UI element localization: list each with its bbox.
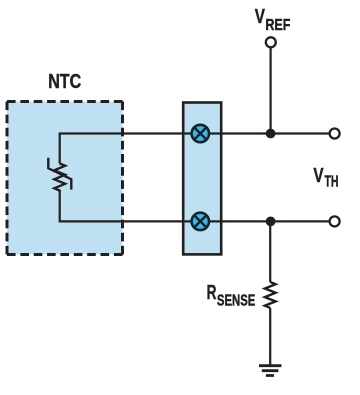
svg-text:SENSE: SENSE [217, 292, 256, 309]
wire bottom: thermistor to VTH bottom terminal [60, 192, 329, 221]
junction node bottom [266, 217, 276, 227]
VREF terminal circle [266, 37, 276, 47]
svg-text:TH: TH [325, 174, 339, 191]
ground [259, 366, 282, 376]
VTH top terminal circle [330, 129, 340, 139]
svg-text:R: R [207, 282, 217, 304]
wire: VREF stem [270, 48, 272, 133]
wire: RSENSE to ground [269, 308, 271, 366]
svg-text:V: V [255, 6, 266, 28]
resistor RSENSE [265, 282, 276, 308]
VTH bottom terminal circle [330, 216, 340, 226]
terminal pin 2 (circled X) [192, 213, 209, 230]
terminal pin 1 (circled X) [192, 125, 209, 142]
wire top: thermistor to VTH top terminal [60, 134, 329, 164]
wire: junction to RSENSE [269, 221, 271, 282]
svg-text:REF: REF [265, 17, 290, 34]
svg-text:NTC: NTC [48, 71, 81, 93]
thermistor RT (NTC) [48, 158, 71, 192]
terminal block J1 [183, 103, 221, 255]
junction node top [266, 129, 276, 139]
NTC enclosure [7, 102, 123, 255]
svg-text:V: V [313, 165, 324, 187]
